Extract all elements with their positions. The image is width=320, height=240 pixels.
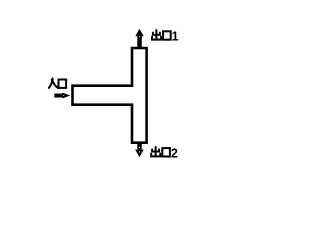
T-pipe body (vertical tube with left branch) xyxy=(73,48,147,143)
svg-text:1: 1 xyxy=(172,30,179,44)
label 出口1 xyxy=(152,29,179,43)
label 出口2 xyxy=(151,146,178,160)
svg-text:2: 2 xyxy=(171,146,178,160)
outlet 1 arrow (up) xyxy=(135,29,143,48)
outlet 2 arrow (down) xyxy=(135,142,144,157)
inlet arrow (right-pointing) xyxy=(54,93,70,99)
label 入口 xyxy=(49,79,66,88)
